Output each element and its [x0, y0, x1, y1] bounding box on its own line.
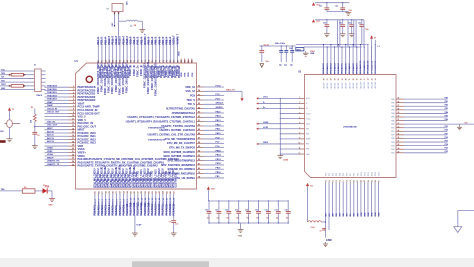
wire U1 left pin 13	[45, 124, 97, 128]
svg-text:PB11: PB11	[216, 168, 222, 170]
svg-text:C16: C16	[265, 210, 268, 212]
svg-text:VSS: VSS	[185, 72, 187, 77]
wire U1 bottom pin 21	[165, 190, 168, 215]
svg-text:38: 38	[398, 144, 400, 146]
svg-text:32: 32	[331, 78, 333, 80]
wire U1 top pin 21	[169, 37, 172, 63]
wire U1 right pin 18	[167, 159, 224, 163]
svg-text:C9: C9	[37, 135, 39, 137]
svg-text:ADC12: ADC12	[47, 137, 55, 140]
svg-text:PB10: PB10	[216, 172, 222, 174]
svg-text:TRACED0: TRACED0	[47, 88, 58, 91]
wire drop	[347, 20, 349, 47]
svg-text:18: 18	[72, 141, 74, 143]
wire U1 left pin 6	[45, 101, 85, 106]
svg-text:39: 39	[357, 78, 359, 80]
svg-text:JTMS/SWDIO/TAL3: JTMS/SWDIO/TAL3	[172, 111, 196, 115]
U2 bottom pin columns	[324, 172, 380, 217]
svg-text:PB6: PB6	[391, 120, 394, 122]
wire J1 pin 3	[0, 77, 46, 79]
svg-text:PC8: PC8	[354, 173, 356, 176]
svg-text:VDD: VDD	[188, 72, 190, 77]
svg-text:19: 19	[72, 145, 74, 147]
scrollbar track	[0, 259, 474, 267]
power arrow above Y1	[8, 107, 15, 119]
svg-text:23: 23	[364, 180, 366, 182]
svg-text:7: 7	[73, 105, 74, 107]
pin label	[132, 65, 136, 76]
svg-text:ETH_3: ETH_3	[106, 198, 108, 205]
svg-text:PE4: PE4	[306, 148, 309, 151]
IC U2 body: AT90USB outline with cut corner bottom-left	[305, 75, 397, 178]
power arrow row2	[312, 19, 364, 23]
capacitor C22	[335, 3, 345, 12]
wire drop	[363, 20, 365, 47]
svg-text:88: 88	[198, 133, 200, 135]
svg-text:ETH_2: ETH_2	[102, 198, 104, 205]
svg-text:1: 1	[73, 86, 74, 88]
svg-text:25: 25	[398, 98, 400, 100]
net label OSC32	[0, 131, 5, 133]
svg-text:PF10/ADC10: PF10/ADC10	[359, 60, 362, 74]
capacitor C13	[235, 200, 241, 223]
wire U1 top pin 9	[126, 35, 129, 63]
svg-text:USART1_RTS/UART4_RX/USART3_CTS: USART1_RTS/UART4_RX/USART3_CTS/TIM1_CH4/…	[126, 120, 196, 124]
svg-text:PC0: PC0	[325, 173, 327, 176]
wire U2 left pin 12	[280, 153, 311, 156]
wire U2 bottom pin 16	[378, 172, 381, 217]
ground for Y3	[303, 50, 315, 56]
wire U1 bottom pin 1	[94, 190, 97, 215]
capacitor C32	[348, 20, 355, 37]
wire U1 bottom pin 22	[169, 190, 172, 215]
svg-text:PF9/ADC9: PF9/ADC9	[356, 62, 359, 73]
svg-text:27: 27	[378, 180, 380, 182]
wire U1 top stub pin 4	[192, 59, 194, 78]
wire U1 right pin 12	[147, 132, 224, 137]
svg-text:USB: USB	[310, 53, 315, 55]
wire U1 top pin 6	[115, 35, 118, 63]
svg-text:USART2_RX: USART2_RX	[47, 160, 60, 163]
pin label	[99, 63, 105, 92]
wire U1 top pin 16	[151, 37, 154, 63]
svg-text:R9: R9	[31, 107, 33, 109]
pin label	[96, 62, 102, 94]
svg-text:PA12: PA12	[216, 123, 222, 126]
svg-text:PE2: PE2	[445, 130, 448, 132]
U1 interior top vertical pin labels	[96, 61, 181, 96]
svg-text:PB12: PB12	[216, 163, 222, 165]
svg-text:PE5: PE5	[306, 144, 309, 146]
svg-text:86: 86	[198, 142, 200, 144]
capacitor C10	[205, 200, 211, 223]
wire U1 left pin 16	[45, 134, 97, 139]
svg-text:USART1_TX/TIM1_CH3/TA9: USART1_TX/TIM1_CH3/TA9	[161, 124, 195, 128]
wire drop	[337, 20, 339, 47]
svg-text:PE7: PE7	[306, 128, 309, 130]
svg-text:PB3: PB3	[445, 108, 448, 110]
svg-text:13: 13	[329, 180, 331, 182]
inductor L3 (ferrite) to ground	[119, 20, 143, 30]
pin label	[146, 168, 152, 187]
wire U1 right pin 8	[127, 115, 224, 120]
pin label	[103, 165, 109, 188]
pin label	[125, 62, 131, 93]
J1 wires	[0, 69, 46, 90]
wire U1 top pin 14	[144, 33, 147, 63]
wire U1 right pin 7	[172, 110, 224, 115]
wire U2 bottom pin 2	[328, 173, 331, 217]
svg-text:PC3: PC3	[336, 173, 338, 176]
capacitor load 3	[290, 46, 294, 66]
power arrow VDD for cap bank	[207, 186, 216, 201]
wire U2 bottom pin 12	[363, 172, 366, 217]
svg-text:15: 15	[72, 132, 74, 134]
svg-text:82: 82	[198, 159, 200, 161]
svg-text:STM32F407IGT6: STM32F407IGT6	[148, 139, 166, 142]
svg-text:C31: C31	[339, 23, 342, 25]
U1 refdes	[75, 59, 79, 63]
wire U1 right pin 11	[159, 128, 224, 133]
wire U1 bottom pin 9	[122, 190, 125, 215]
svg-text:OSC: OSC	[112, 22, 114, 27]
wire U2 right pin 3	[391, 105, 448, 108]
U2 right pin rows	[391, 98, 474, 155]
svg-text:22p 22p: 22p 22p	[264, 45, 270, 47]
svg-text:89: 89	[198, 129, 200, 131]
svg-text:PB4_T: PB4_T	[151, 37, 154, 45]
dark red net bar	[0, 140, 6, 143]
ground for L3	[139, 30, 145, 33]
pin label	[146, 61, 152, 94]
svg-text:91: 91	[198, 120, 200, 122]
wire U1 top pin 13	[140, 37, 143, 63]
wire U1 bottom pin 16	[147, 190, 150, 215]
svg-text:PD6: PD6	[391, 138, 394, 140]
svg-text:99: 99	[198, 86, 200, 88]
svg-text:C22: C22	[335, 6, 338, 8]
svg-text:23: 23	[72, 158, 74, 160]
svg-text:PB8_T: PB8_T	[166, 37, 169, 45]
wire U2 top pin 6	[341, 46, 344, 88]
wire U2 bottom pin 8	[349, 173, 352, 217]
svg-text:ETH_MII_TX_EN/PC6: ETH_MII_TX_EN/PC6	[169, 146, 195, 150]
wire U2 top pin 10	[356, 46, 359, 88]
wire U1 bottom pin 2	[97, 190, 100, 215]
wire U2 bottom pin 13	[367, 172, 370, 217]
svg-text:PE7_T: PE7_T	[97, 37, 100, 45]
svg-text:5V0: 5V0	[465, 123, 468, 125]
wire U2 bottom pin 9	[353, 173, 356, 217]
crystal X1 (top box oscillator)	[107, 1, 127, 11]
svg-text:PB1: PB1	[391, 102, 394, 104]
wire U1 left pin 25	[45, 163, 159, 168]
wire U1 right pin 13	[165, 137, 224, 141]
svg-text:AREF: AREF	[306, 138, 311, 141]
svg-text:VCAP: VCAP	[136, 224, 142, 227]
wire U1 top pin 8	[122, 35, 125, 63]
pin label	[114, 167, 120, 188]
wire U2 bottom pin 4	[335, 173, 338, 217]
svg-text:VDD_12: VDD_12	[185, 85, 195, 89]
wire VBUS vertical	[375, 40, 380, 75]
wire U1 top pin 23	[176, 33, 179, 63]
svg-text:11: 11	[299, 148, 301, 150]
svg-text:PD2: PD2	[445, 151, 448, 153]
svg-text:FSMC_D: FSMC_D	[135, 66, 139, 77]
wire J1 pin 5	[0, 84, 46, 87]
svg-text:PB5_T: PB5_T	[155, 37, 158, 45]
wire U1 bottom pin 17	[151, 190, 154, 215]
svg-text:31: 31	[327, 78, 329, 80]
U2 left bus vertical with ground	[277, 98, 289, 161]
svg-text:19: 19	[350, 180, 352, 182]
wire U2 left pin 7	[256, 126, 309, 130]
svg-text:26: 26	[398, 101, 400, 103]
svg-text:VDD: VDD	[181, 72, 183, 77]
svg-text:UCap: UCap	[306, 118, 310, 120]
wire U1 left pin 15	[45, 130, 97, 135]
wire U1 left pin 12	[45, 121, 94, 125]
svg-text:C18: C18	[284, 210, 287, 212]
svg-text:PC12: PC12	[368, 172, 370, 176]
svg-text:GND: GND	[49, 205, 54, 207]
wire U1 top stub pin 2	[184, 59, 187, 78]
wire U1 top pin 17	[155, 37, 158, 63]
wire U1 left pin 7	[45, 104, 100, 109]
svg-text:TRACECK: TRACECK	[47, 85, 58, 88]
svg-text:PB14: PB14	[216, 154, 222, 157]
svg-text:36: 36	[346, 78, 348, 80]
crystal Y3 (8MHz box)	[289, 47, 304, 51]
rail for U2 crystal	[259, 45, 296, 46]
wire U2 top pin 13	[367, 44, 370, 89]
LED D1	[43, 185, 49, 194]
cap bank top rail	[208, 200, 288, 202]
wire U2 right pin 1	[391, 98, 448, 101]
svg-text:PD5: PD5	[391, 142, 394, 144]
red values on rail	[264, 45, 270, 47]
wire U2 right pin 13	[391, 140, 448, 143]
svg-text:PB4: PB4	[391, 112, 394, 115]
wire U1 right pin 17	[163, 154, 224, 159]
svg-text:ETH_6: ETH_6	[116, 198, 118, 205]
svg-text:NRST: NRST	[47, 128, 53, 130]
wire U2 right pin 10	[391, 129, 448, 133]
wire U1 top pin 22	[173, 35, 176, 63]
svg-text:PB2_T: PB2_T	[140, 37, 143, 45]
svg-text:PH0_T: PH0_T	[137, 37, 140, 45]
svg-text:26M: 26M	[125, 1, 127, 5]
pin label	[171, 65, 177, 78]
svg-text:USART2_TX: USART2_TX	[47, 163, 60, 166]
wire U1 bottom pin 12	[133, 190, 136, 215]
U1 bottom pin columns	[94, 190, 176, 215]
svg-text:UVcc: UVcc	[306, 98, 310, 100]
pin label	[107, 168, 113, 187]
wire U2 top pin 1	[322, 44, 325, 89]
svg-text:OSC_IN: OSC_IN	[47, 121, 55, 123]
ground row1	[327, 10, 352, 16]
wire OSC_IN row to chip	[34, 126, 44, 127]
wire U2 bottom pin 7	[346, 173, 349, 217]
wire U2 top pin 5	[337, 44, 340, 89]
svg-text:100n: 100n	[365, 29, 369, 31]
svg-text:22: 22	[72, 154, 74, 156]
wire J1 pin 2	[0, 73, 46, 76]
svg-text:PB7: PB7	[391, 124, 394, 126]
wire U1 top pin 10	[130, 36, 133, 63]
svg-text:C13: C13	[235, 210, 238, 212]
svg-text:PB3: PB3	[391, 110, 394, 112]
svg-text:90: 90	[198, 125, 200, 127]
svg-text:9: 9	[73, 112, 74, 114]
wire U1 right pin 10	[161, 123, 224, 128]
svg-text:31: 31	[398, 119, 400, 121]
wire U1 left pin 8	[45, 108, 98, 112]
wire U1 left pin 23	[45, 157, 180, 161]
wire U1 top pin 2	[101, 37, 104, 63]
svg-text:C11: C11	[215, 210, 218, 212]
wire U2 right pin 14	[391, 143, 448, 147]
svg-text:PF11/ADC11: PF11/ADC11	[363, 60, 366, 74]
svg-text:PC7: PC7	[350, 173, 352, 176]
crystal load caps	[279, 46, 294, 66]
svg-text:SWCLK: SWCLK	[216, 103, 224, 105]
wire U1 left pin 14	[45, 127, 85, 131]
wire U2 top pin 8	[348, 46, 351, 88]
svg-text:UCAP: UCAP	[263, 126, 269, 129]
wire U1 right pin 16	[163, 150, 224, 154]
svg-text:PE15_T: PE15_T	[126, 35, 129, 44]
inductor L2 with 3V3 arrow	[306, 183, 326, 229]
wire U2 bottom pin 5	[339, 173, 342, 217]
svg-text:ADC10: ADC10	[47, 130, 55, 133]
pin label	[132, 165, 138, 188]
svg-text:U9: U9	[107, 9, 109, 11]
svg-text:UGnd: UGnd	[306, 113, 311, 115]
svg-text:C32: C32	[348, 23, 351, 25]
svg-text:PF12/ADC12: PF12/ADC12	[367, 60, 370, 74]
svg-text:32: 32	[398, 123, 400, 125]
svg-text:35: 35	[398, 134, 400, 136]
wire U2 bottom pin 15	[374, 172, 377, 217]
svg-text:27: 27	[398, 105, 400, 107]
svg-text:C8: C8	[319, 231, 321, 233]
capacitor C16	[265, 200, 271, 223]
wire U1 left pin 5	[45, 98, 96, 103]
svg-text:PB9_T: PB9_T	[169, 37, 172, 45]
wire U2 left pin 1	[256, 97, 310, 100]
wire U2 left pin 4	[280, 111, 311, 115]
svg-text:PE2: PE2	[391, 131, 394, 133]
svg-text:PC15: PC15	[379, 172, 381, 176]
wire U2 right pin 11	[391, 133, 448, 136]
pin label	[135, 65, 139, 77]
svg-text:SDIO_D3/TIM8_CH4/PB15: SDIO_D3/TIM8_CH4/PB15	[163, 150, 195, 154]
svg-text:PB6_T: PB6_T	[158, 37, 161, 45]
wire U2 left pin 5	[280, 117, 311, 120]
wire U1 top pin 18	[158, 37, 161, 63]
svg-text:22: 22	[361, 180, 363, 182]
wire U1 top stub pin 3	[188, 59, 190, 78]
svg-text:PF0/ADC0: PF0/ADC0	[322, 62, 325, 73]
wire U1 left pin 17	[45, 137, 97, 142]
svg-text:VBAT: VBAT	[47, 101, 53, 104]
pin label	[114, 63, 120, 92]
wire U1 right pin 4	[186, 98, 224, 102]
svg-text:PC2: PC2	[332, 173, 334, 176]
svg-text:33: 33	[334, 78, 336, 80]
svg-text:U1: U1	[75, 59, 79, 63]
svg-text:PD7: PD7	[391, 135, 394, 137]
wire J1 pin 6	[0, 88, 46, 90]
svg-text:OSC32_IN: OSC32_IN	[47, 108, 58, 110]
svg-text:OTG_HS_ID/PB1: OTG_HS_ID/PB1	[175, 176, 196, 180]
svg-text:25: 25	[371, 180, 373, 182]
svg-text:16: 16	[339, 180, 341, 182]
svg-text:11: 11	[72, 119, 74, 121]
svg-text:80: 80	[198, 168, 200, 170]
svg-text:L3: L3	[130, 26, 132, 28]
svg-text:PF1/ADC1: PF1/ADC1	[326, 62, 329, 73]
wire U1 left pin 21	[45, 151, 87, 155]
svg-text:VSS: VSS	[192, 72, 194, 77]
wire U1 top pin 20	[166, 37, 169, 63]
svg-text:TRACED1: TRACED1	[47, 91, 58, 94]
pin label	[157, 65, 163, 78]
svg-text:ETH_7: ETH_7	[120, 198, 122, 205]
wire U2 top pin 14	[370, 46, 373, 88]
svg-text:PC9: PC9	[357, 173, 359, 176]
power arrow row1	[312, 2, 350, 6]
pin label	[125, 168, 131, 187]
bus line 1	[296, 44, 367, 46]
svg-text:37: 37	[398, 141, 400, 143]
capacitors row2	[323, 20, 364, 45]
svg-text:26: 26	[375, 180, 377, 182]
svg-text:2u2: 2u2	[175, 223, 178, 225]
svg-text:2: 2	[73, 89, 74, 91]
wire U2 right pin 2	[391, 101, 448, 104]
svg-text:TDI_S: TDI_S	[188, 102, 196, 106]
svg-text:25: 25	[72, 164, 74, 166]
svg-text:VDD: VDD	[179, 51, 181, 56]
pin label	[164, 171, 170, 188]
svg-text:PB13: PB13	[216, 159, 222, 161]
svg-text:22p: 22p	[284, 64, 287, 66]
wire U2 right pin 7	[391, 119, 448, 122]
svg-text:PE13_T: PE13_T	[119, 35, 122, 44]
pin label	[171, 168, 177, 187]
wire U2 right pin 4	[391, 108, 448, 111]
wire U2 right pin 6	[391, 115, 448, 118]
wire U2 bottom pin 14	[370, 172, 373, 217]
wire U1 left pin 9	[45, 111, 101, 115]
wire U2 left pin 3	[256, 107, 308, 110]
pin label	[128, 167, 134, 188]
wire U2 bottom pin 11	[360, 172, 363, 217]
svg-text:VSS_12: VSS_12	[185, 89, 195, 93]
svg-text:VSS_T: VSS_T	[133, 36, 136, 44]
svg-text:PA15: PA15	[216, 110, 222, 113]
wire U2 left pin 11	[280, 148, 310, 151]
svg-text:PD2: PD2	[391, 153, 394, 155]
svg-text:VCAP2_T: VCAP2_T	[176, 33, 179, 44]
wire U1 top pin 19	[162, 37, 165, 63]
wire U1 right pin 22	[175, 176, 224, 180]
svg-text:C10: C10	[205, 210, 208, 212]
